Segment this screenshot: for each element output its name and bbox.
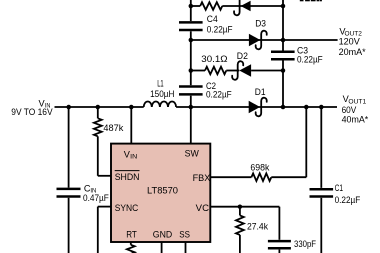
wire VIN pin branch: [130, 107, 132, 144]
node VC junction: [238, 204, 243, 209]
svg-text:60V: 60V: [342, 105, 357, 115]
wire D2 row left segment: [191, 70, 205, 72]
capacitor CIN: [57, 188, 81, 191]
wire RT pin stub: [130, 242, 132, 245]
svg-text:C4: C4: [207, 14, 218, 24]
wire output rail lower segment (C3 to VOUT1 line): [282, 61, 284, 108]
wire CIN branch upper: [68, 107, 70, 188]
wire C1 branch upper: [320, 107, 322, 188]
svg-text:0.22µF: 0.22µF: [207, 25, 233, 35]
inductor L1: [144, 102, 176, 108]
svg-text:40mA*: 40mA*: [342, 114, 369, 124]
diode D1: [249, 101, 260, 114]
svg-text:20mA*: 20mA*: [339, 47, 366, 57]
wire GND pin stub: [161, 242, 163, 253]
capacitor C3: [271, 51, 295, 54]
wire SS pin stub: [185, 242, 187, 253]
svg-text:9V TO 16V: 9V TO 16V: [11, 107, 53, 117]
wire 30.1 ohm to D2 cathode: [226, 70, 239, 72]
svg-text:FBX: FBX: [193, 173, 211, 183]
resistor 30.1 ohm: [205, 67, 226, 75]
svg-text:IN: IN: [130, 154, 137, 161]
node VOUT1 junction output rail: [281, 105, 286, 110]
svg-text:487k: 487k: [103, 123, 123, 133]
wire pump rail top segment (to C4): [190, 0, 192, 21]
svg-text:27.4k: 27.4k: [247, 221, 268, 231]
svg-text:698k: 698k: [250, 163, 269, 173]
svg-text:GND: GND: [153, 230, 173, 240]
resistor top pump stage: [200, 2, 222, 10]
wire D2 row right segment: [251, 70, 283, 72]
cut-off label remnants at top edge: [300, 0, 304, 1]
wire output rail upper segment (to C3): [282, 0, 284, 51]
wire FBX pin to 698k: [210, 176, 251, 178]
svg-text:30.1Ω: 30.1Ω: [201, 54, 227, 64]
wire D3 row and VOUT2 line: [191, 39, 338, 41]
wire CIN branch lower (cut by bottom edge): [68, 198, 70, 253]
wire top pump row left segment: [191, 5, 200, 7]
svg-text:LT8570: LT8570: [147, 185, 178, 195]
node junction 487k branch: [96, 105, 101, 110]
svg-text:VC: VC: [196, 203, 210, 213]
resistor 27.4k: [236, 215, 244, 235]
node pump rail A junction top row: [189, 4, 194, 9]
wire 330pF branch lower (cut by bottom edge): [278, 250, 280, 253]
svg-text:D1: D1: [255, 87, 266, 97]
svg-text:0.22µF: 0.22µF: [297, 55, 323, 65]
capacitor C4: [179, 21, 203, 24]
svg-text:0.47µF: 0.47µF: [83, 193, 109, 203]
svg-text:SW: SW: [185, 149, 200, 159]
svg-text:0.22µF: 0.22µF: [335, 195, 361, 205]
wire SW node row to VOUT1: [176, 106, 337, 108]
wire 487k to SHDN pin: [97, 136, 99, 176]
wire VC pin row: [210, 206, 279, 208]
svg-text:SS: SS: [179, 230, 190, 240]
node SW junction: [189, 105, 194, 110]
svg-text:150µH: 150µH: [150, 89, 174, 99]
svg-text:L1: L1: [157, 79, 164, 89]
capacitor C1: [310, 188, 334, 191]
wire pump rail middle segment (C4 to C2): [190, 31, 192, 85]
wire C1 branch lower (cut by bottom edge): [320, 198, 322, 253]
node junction CIN branch: [66, 105, 71, 110]
node VOUT2 junction: [281, 38, 286, 43]
svg-text:SYNC: SYNC: [115, 203, 139, 213]
svg-text:120V: 120V: [339, 36, 361, 46]
capacitor 330pF: [268, 240, 291, 243]
wire SYNC pin to ground rail: [98, 206, 111, 208]
diode D4 top pump (left-pointing, cut by top edge): [241, 1, 251, 12]
resistor 698k: [251, 173, 271, 181]
svg-text:RT: RT: [126, 230, 137, 240]
svg-text:0.22µF: 0.22µF: [206, 90, 232, 100]
node VOUT1 junction feedback branch: [304, 105, 309, 110]
resistor RT (cut by bottom edge): [127, 245, 135, 253]
svg-text:C1: C1: [335, 183, 343, 193]
node pump rail junction D2 row: [189, 68, 194, 73]
wire pump rail lower segment (C2 to SW pin): [190, 96, 192, 144]
node output rail junction D2 row: [281, 68, 286, 73]
diode D3: [249, 34, 260, 47]
wire 330pF branch upper: [278, 207, 280, 240]
wire top pump row right segment: [222, 5, 283, 7]
resistor 487k: [94, 118, 102, 136]
wire VIN input line: [55, 106, 144, 108]
svg-text:D3: D3: [255, 19, 266, 29]
node pump rail junction D3 row: [189, 38, 194, 43]
wire 698k to VOUT1: [271, 176, 306, 178]
capacitor C2: [179, 85, 203, 88]
svg-text:D2: D2: [237, 51, 248, 61]
node output rail junction top row: [281, 4, 286, 9]
svg-text:330pF: 330pF: [294, 239, 316, 249]
op-amp U1 LT8570 IC body: [111, 144, 210, 242]
node junction VIN pin branch: [129, 105, 134, 110]
wire 27.4k branch upper: [239, 207, 241, 216]
wire 27.4k branch lower (cut by bottom edge): [239, 235, 241, 253]
svg-text:SHDN: SHDN: [115, 172, 140, 182]
node VOUT1 junction C1 branch: [319, 105, 324, 110]
wire 487k branch upper: [97, 107, 99, 118]
diode D2 (left-pointing): [239, 64, 251, 77]
